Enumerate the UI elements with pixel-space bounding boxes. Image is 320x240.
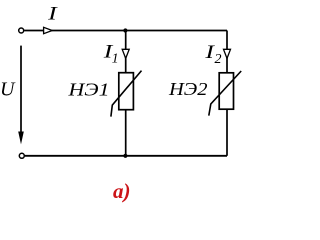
node junction top bbox=[123, 28, 127, 32]
svg-text:НЭ2: НЭ2 bbox=[168, 79, 208, 99]
wire bottom (from left terminal to right branch corner) bbox=[25, 155, 227, 157]
current arrow I2 on branch 2 bbox=[224, 49, 231, 58]
voltage arrow U line bbox=[20, 46, 22, 135]
svg-text:НЭ1: НЭ1 bbox=[67, 80, 109, 100]
nonlinear element NE1 body bbox=[119, 73, 134, 110]
svg-text:U: U bbox=[0, 79, 16, 101]
terminal top-left bbox=[19, 28, 24, 33]
current arrow I1 on branch 1 bbox=[122, 49, 129, 58]
svg-text:а): а) bbox=[113, 179, 131, 203]
wire branch 2 vertical bbox=[226, 31, 228, 156]
nonlinear element NE2 diagonal stroke bbox=[209, 71, 241, 116]
current arrow I on top wire bbox=[44, 27, 53, 33]
voltage arrow U head bbox=[18, 132, 24, 145]
svg-text:2: 2 bbox=[215, 52, 222, 67]
node junction bottom bbox=[123, 154, 127, 158]
nonlinear element NE1 diagonal stroke bbox=[111, 71, 142, 117]
wire top (from left terminal to right branch corner) bbox=[24, 30, 227, 32]
wire branch 1 vertical bbox=[125, 31, 127, 156]
nonlinear element NE2 body bbox=[219, 73, 233, 109]
svg-text:I: I bbox=[47, 3, 58, 24]
terminal bottom-left bbox=[19, 153, 24, 158]
svg-text:1: 1 bbox=[112, 52, 119, 67]
